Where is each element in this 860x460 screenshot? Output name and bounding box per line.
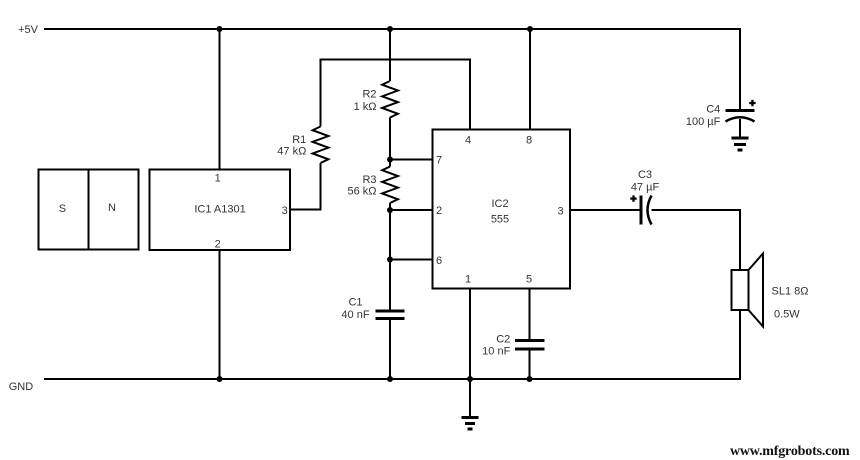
svg-text:C1: C1 (348, 297, 362, 309)
wire IC2 pin 3 to C3 (570, 209, 641, 211)
wire C2 bottom to GND (529, 349, 531, 379)
node +5V / R2 junction (387, 26, 393, 32)
capacitor C4 polarized (686, 100, 756, 128)
svg-text:3: 3 (282, 205, 288, 217)
node GND / C1 junction (387, 376, 393, 382)
svg-text:R2: R2 (362, 89, 376, 101)
wire +5V rail (44, 29, 740, 111)
op-amp IC1 A1301 hall sensor (150, 170, 291, 251)
ground symbol below IC2 pin 1 (462, 418, 479, 430)
svg-text:47 kΩ: 47 kΩ (277, 146, 306, 158)
wire IC2 pin 7 (390, 159, 433, 161)
ground symbol below C4 (732, 138, 749, 150)
plus sign C3 (630, 197, 636, 199)
node R2/R3/pin7 junction (387, 157, 393, 163)
svg-text:2: 2 (215, 239, 221, 251)
svg-text:3: 3 (557, 206, 563, 218)
svg-text:SL1 8Ω: SL1 8Ω (772, 286, 809, 298)
wire IC2 pin1 ground stub (469, 379, 471, 418)
svg-text:S: S (59, 203, 66, 215)
wire C4 to ground (739, 119, 741, 138)
svg-text:2: 2 (436, 205, 442, 217)
svg-text:1: 1 (215, 173, 221, 185)
svg-text:R1: R1 (292, 134, 306, 146)
svg-text:1: 1 (465, 273, 471, 285)
svg-text:C2: C2 (496, 333, 510, 345)
plus sign C4 (749, 102, 755, 104)
svg-text:56 kΩ: 56 kΩ (347, 185, 376, 197)
svg-text:IC1 A1301: IC1 A1301 (194, 204, 245, 216)
svg-text:10 nF: 10 nF (482, 346, 510, 358)
magnet S/N box (39, 170, 139, 250)
wire IC2 pin 6 (390, 259, 433, 261)
wire R3 to C1 (389, 210, 391, 311)
node +5V / IC2 pin 8 junction (527, 26, 533, 32)
wire IC1 pin 1 to +5V (219, 29, 221, 170)
svg-text:0.5W: 0.5W (774, 309, 800, 321)
wire R2 bottom (389, 118, 391, 160)
svg-text:R3: R3 (362, 174, 376, 186)
node pin6 junction (387, 257, 393, 263)
wire IC2 pin 5 to C2 (529, 289, 531, 341)
node +5V / IC1 pin 1 junction (217, 26, 223, 32)
svg-text:1 kΩ: 1 kΩ (354, 101, 377, 113)
wire R3 bottom stub (389, 203, 391, 210)
svg-text:7: 7 (436, 155, 442, 167)
svg-text:40 nF: 40 nF (341, 309, 369, 321)
svg-text:C4: C4 (706, 104, 720, 116)
svg-text:IC2: IC2 (491, 198, 508, 210)
svg-text:C3: C3 (638, 169, 652, 181)
capacitor C3 polarized (630, 169, 659, 225)
svg-text:N: N (108, 202, 116, 214)
speaker SL1 (732, 254, 809, 327)
capacitor C1 (341, 297, 404, 322)
wire R1 top to IC2 pin 4 (321, 60, 471, 130)
svg-text:100 µF: 100 µF (686, 116, 721, 128)
wire IC2 pin 1 to GND (469, 289, 471, 380)
svg-text:8: 8 (526, 135, 532, 147)
node GND / C2 junction (527, 376, 533, 382)
resistor R2 (354, 81, 398, 118)
resistor R1 (277, 127, 328, 164)
wire C1 bottom to GND (389, 319, 391, 380)
capacitor C2 (482, 333, 544, 357)
svg-text:GND: GND (9, 381, 34, 393)
svg-text:+5V: +5V (18, 24, 39, 36)
wire IC2 pin 2 (390, 209, 433, 211)
svg-text:6: 6 (436, 255, 442, 267)
node R3/pin2 junction (387, 207, 393, 213)
node GND / IC2 pin 1 junction (467, 376, 473, 382)
wire IC2 pin 8 to +5V (529, 29, 531, 130)
op-amp IC2 555 timer (433, 130, 571, 289)
svg-text:www.mfgrobots.com: www.mfgrobots.com (730, 444, 850, 459)
svg-text:47 µF: 47 µF (631, 182, 660, 194)
svg-text:555: 555 (491, 214, 509, 226)
resistor R3 (347, 167, 397, 204)
wire R3 top stub (389, 160, 391, 167)
wire IC1 pin 3 to R1 (290, 163, 321, 210)
wire IC1 pin 2 to GND (219, 250, 221, 379)
wire R2 top to +5V (389, 29, 391, 81)
wire C3 to speaker SL1 (652, 210, 741, 270)
wire GND rail (44, 310, 740, 379)
svg-text:5: 5 (526, 273, 532, 285)
node GND / IC1 pin 2 junction (217, 376, 223, 382)
svg-text:4: 4 (465, 135, 471, 147)
